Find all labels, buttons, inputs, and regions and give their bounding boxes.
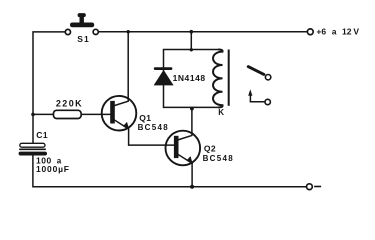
svg-text:220K: 220K <box>56 98 83 108</box>
svg-text:C1: C1 <box>36 130 48 140</box>
svg-text:1000µF: 1000µF <box>36 164 70 174</box>
svg-text:1N4148: 1N4148 <box>173 73 206 83</box>
svg-text:Q1: Q1 <box>139 113 151 123</box>
svg-text:BC548: BC548 <box>138 123 169 132</box>
svg-text:S1: S1 <box>77 34 90 44</box>
svg-text:BC548: BC548 <box>203 154 234 163</box>
svg-text:Q2: Q2 <box>204 144 216 154</box>
svg-text:K: K <box>218 108 224 117</box>
